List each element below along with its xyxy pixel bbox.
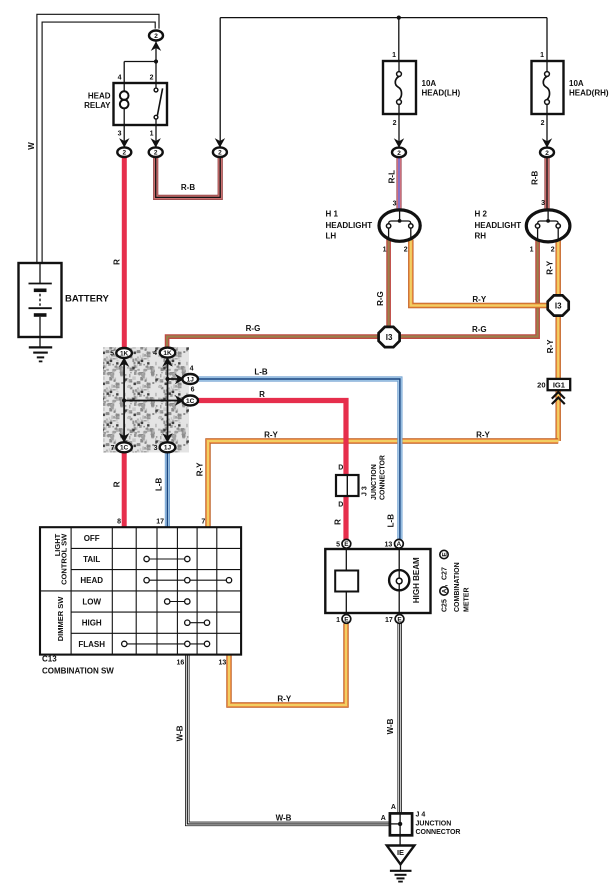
svg-text:2: 2 bbox=[397, 150, 401, 157]
arrow into relay pin3 connector (down) bbox=[119, 138, 129, 147]
junction connector J4 bbox=[390, 813, 412, 835]
svg-text:5: 5 bbox=[336, 542, 340, 549]
chevrons under IG1 bbox=[552, 392, 565, 399]
junction block internal wires bbox=[123, 356, 125, 444]
meter pin circles bbox=[342, 539, 351, 548]
svg-text:E: E bbox=[344, 541, 349, 548]
battery box bbox=[19, 263, 62, 337]
svg-text:R-Y: R-Y bbox=[546, 339, 555, 353]
svg-text:IE: IE bbox=[397, 848, 404, 857]
meter high-beam lamp bbox=[389, 570, 409, 590]
svg-text:A: A bbox=[397, 541, 402, 548]
svg-text:5: 5 bbox=[110, 351, 114, 358]
fuse 10A HEAD(RH) bbox=[532, 61, 564, 114]
svg-text:H 1: H 1 bbox=[326, 210, 339, 219]
arrow into 1K pin4 (up) bbox=[162, 357, 172, 367]
switch contacts LOW bbox=[167, 601, 187, 603]
svg-text:I3: I3 bbox=[555, 302, 562, 311]
ground battery bbox=[29, 346, 52, 348]
svg-text:CONNECTOR: CONNECTOR bbox=[380, 455, 387, 500]
svg-text:1C: 1C bbox=[186, 398, 195, 405]
svg-text:1: 1 bbox=[540, 52, 544, 59]
splice octagon I3 left bbox=[379, 327, 400, 347]
connector oval 1J pin4 bbox=[182, 374, 198, 384]
svg-text:W: W bbox=[27, 142, 36, 150]
wire R: relay pin3 to junction block 1K pin5 bbox=[122, 157, 127, 350]
svg-text:R-G: R-G bbox=[376, 291, 385, 306]
svg-text:HEAD(RH): HEAD(RH) bbox=[569, 89, 609, 98]
wire W-B: comb sw pin16 to J4 bbox=[187, 655, 390, 824]
svg-text:OFF: OFF bbox=[84, 534, 100, 543]
svg-text:LH: LH bbox=[326, 232, 337, 241]
svg-text:C13: C13 bbox=[42, 655, 57, 664]
svg-text:3: 3 bbox=[541, 200, 545, 207]
wire R-B: fuse HEAD(RH) to H2 pin3 bbox=[544, 157, 549, 212]
splice octagon I3 right bbox=[548, 295, 569, 315]
wire R-Y: comb sw pin13 to combination meter pin1 bbox=[229, 624, 346, 706]
svg-text:R-Y: R-Y bbox=[476, 431, 490, 440]
wire R-B: relay pin1 connector to fuse feed connector bbox=[156, 157, 221, 197]
svg-text:L-B: L-B bbox=[254, 368, 268, 377]
wire black: relay output feed to fuses bbox=[220, 17, 547, 19]
svg-text:7: 7 bbox=[201, 519, 205, 526]
svg-text:R-Y: R-Y bbox=[545, 260, 554, 274]
svg-text:HIGH BEAM: HIGH BEAM bbox=[412, 557, 421, 603]
svg-text:3: 3 bbox=[393, 201, 397, 208]
connector oval 2 relay pin3 bbox=[117, 147, 131, 157]
svg-text:HIGH: HIGH bbox=[82, 619, 102, 628]
svg-text:DIMMER SW: DIMMER SW bbox=[56, 596, 65, 642]
svg-text:D: D bbox=[338, 501, 343, 508]
svg-text:1: 1 bbox=[383, 247, 387, 254]
headlight H1 bbox=[379, 210, 420, 241]
svg-text:2: 2 bbox=[541, 120, 545, 127]
svg-text:6: 6 bbox=[191, 387, 195, 394]
svg-text:8: 8 bbox=[117, 519, 121, 526]
svg-text:E: E bbox=[344, 616, 349, 623]
wire L-B: junction block 1J pin3 to comb sw pin17 bbox=[165, 452, 170, 528]
svg-text:E: E bbox=[441, 552, 448, 557]
arrow into 1C pin6 (right) bbox=[175, 395, 185, 405]
svg-text:CONNECTOR: CONNECTOR bbox=[416, 829, 461, 836]
svg-text:A: A bbox=[381, 815, 386, 822]
svg-text:R-Y: R-Y bbox=[277, 695, 291, 704]
arrow into feed connector (down) bbox=[215, 138, 225, 147]
svg-text:4: 4 bbox=[190, 366, 194, 373]
relay switch bbox=[155, 83, 157, 88]
arrow into top connector 2 (up) bbox=[151, 42, 161, 51]
wire R-L: fuse HEAD(LH) to H1 pin3 bbox=[396, 157, 401, 212]
svg-text:1J: 1J bbox=[187, 376, 195, 383]
connector IG1 box bbox=[548, 379, 571, 390]
svg-text:R-B: R-B bbox=[181, 183, 195, 192]
connector oval 1K pin4 bbox=[160, 348, 176, 358]
svg-text:A: A bbox=[441, 588, 448, 593]
switch contacts HIGH bbox=[187, 622, 207, 624]
svg-text:1K: 1K bbox=[163, 350, 172, 357]
wire R-Y: H1 pin2 to splice I3 right bbox=[411, 240, 548, 306]
svg-text:W-B: W-B bbox=[386, 718, 395, 734]
svg-text:R-L: R-L bbox=[388, 170, 397, 183]
svg-text:C27: C27 bbox=[442, 567, 449, 580]
svg-text:2: 2 bbox=[551, 247, 555, 254]
svg-text:L-B: L-B bbox=[387, 514, 396, 528]
svg-text:RELAY: RELAY bbox=[84, 101, 111, 110]
svg-text:16: 16 bbox=[177, 660, 185, 667]
svg-text:D: D bbox=[338, 465, 343, 472]
switch contacts HEAD bbox=[147, 579, 229, 581]
svg-text:3: 3 bbox=[154, 445, 158, 452]
svg-text:3: 3 bbox=[118, 131, 122, 138]
svg-text:1: 1 bbox=[336, 617, 340, 624]
wire W battery to connector 2 (double line) bbox=[37, 14, 159, 263]
connector oval 1K pin5 bbox=[116, 348, 132, 358]
svg-text:4: 4 bbox=[153, 350, 157, 357]
svg-text:JUNCTION: JUNCTION bbox=[416, 820, 452, 827]
junction connector J3 bbox=[336, 475, 359, 496]
arrow into fuse RH connector (down) bbox=[542, 138, 552, 147]
arrow into 1J pin4 (right) bbox=[175, 374, 185, 384]
node: relay pin2/4 branch bbox=[154, 59, 158, 63]
svg-text:C25: C25 bbox=[442, 599, 449, 612]
wire black: fuse bottoms to connectors bbox=[398, 114, 400, 147]
arrow into fuse LH connector (down) bbox=[394, 138, 404, 147]
wire R-Y: H2 pin2 through splice I3 and IG1 down, across to comb sw pin7 bbox=[208, 241, 558, 529]
svg-text:R-B: R-B bbox=[531, 170, 540, 184]
svg-text:2: 2 bbox=[154, 33, 158, 40]
arrow into 1C pin7 (down) bbox=[119, 433, 129, 443]
fuse 10A HEAD(LH) bbox=[383, 61, 416, 114]
svg-text:2: 2 bbox=[545, 150, 549, 157]
svg-text:COMBINATION: COMBINATION bbox=[454, 562, 461, 612]
arrow into relay pin1 connector (down) bbox=[151, 138, 161, 147]
headlight H2 bbox=[526, 210, 570, 242]
connector oval 1C pin7 bbox=[116, 442, 132, 452]
svg-text:10A: 10A bbox=[569, 79, 584, 88]
svg-text:1: 1 bbox=[530, 247, 534, 254]
svg-text:13: 13 bbox=[385, 542, 393, 549]
svg-text:R-Y: R-Y bbox=[264, 431, 278, 440]
svg-text:W-B: W-B bbox=[276, 814, 292, 823]
svg-text:R: R bbox=[334, 519, 343, 525]
relay coil bbox=[123, 83, 125, 91]
wire W-B: meter pin17 to J4 bbox=[397, 624, 402, 825]
svg-text:HEAD(LH): HEAD(LH) bbox=[422, 89, 461, 98]
svg-text:TAIL: TAIL bbox=[83, 555, 100, 564]
svg-text:1C: 1C bbox=[120, 445, 129, 452]
svg-text:20: 20 bbox=[537, 380, 545, 389]
svg-text:H 2: H 2 bbox=[475, 210, 488, 219]
ground symbol bbox=[390, 870, 412, 872]
connector oval 1C pin6 bbox=[182, 396, 198, 406]
svg-text:2: 2 bbox=[218, 150, 222, 157]
svg-text:R-G: R-G bbox=[472, 325, 487, 334]
svg-text:R-Y: R-Y bbox=[472, 295, 486, 304]
svg-text:2: 2 bbox=[150, 75, 154, 82]
connector oval 2 relay pin1 bbox=[149, 147, 163, 157]
svg-text:HEADLIGHT: HEADLIGHT bbox=[326, 221, 373, 230]
arrow into 1K pin5 (up) bbox=[119, 357, 129, 367]
svg-text:7: 7 bbox=[111, 445, 115, 452]
wire L-B: junction block 1J pin4 to meter pin13 bbox=[196, 379, 400, 540]
connector oval 2 fuse LH bbox=[392, 148, 406, 158]
svg-text:17: 17 bbox=[385, 617, 393, 624]
switch contacts TAIL bbox=[147, 558, 188, 560]
svg-text:2: 2 bbox=[393, 120, 397, 127]
svg-text:10A: 10A bbox=[422, 79, 437, 88]
svg-text:J 3: J 3 bbox=[361, 486, 368, 496]
relay HEAD RELAY box bbox=[114, 83, 168, 125]
svg-text:E: E bbox=[397, 616, 402, 623]
ground triangle IE bbox=[387, 846, 415, 865]
svg-text:17: 17 bbox=[156, 519, 164, 526]
node: feed junction bbox=[397, 16, 401, 20]
svg-text:FLASH: FLASH bbox=[78, 640, 105, 649]
wire R: junction block 1C pin7 to comb sw pin8 bbox=[122, 452, 127, 528]
wire R-G: junction block 1K pin4 to splice I3 to H2 pin1, and H1 pin1 drop bbox=[167, 240, 537, 349]
svg-text:A: A bbox=[391, 804, 396, 811]
svg-text:R-G: R-G bbox=[246, 324, 261, 333]
svg-text:METER: METER bbox=[464, 588, 471, 613]
svg-text:HEAD: HEAD bbox=[80, 576, 103, 585]
rotated wire labels bbox=[27, 142, 555, 742]
switch contacts FLASH bbox=[124, 643, 207, 645]
connector oval 2 fuse RH bbox=[540, 148, 554, 158]
C25/C27 annotation circles bbox=[440, 587, 448, 595]
battery cells bbox=[39, 263, 41, 284]
svg-text:COMBINATION SW: COMBINATION SW bbox=[42, 666, 114, 675]
svg-text:4: 4 bbox=[118, 75, 122, 82]
svg-text:1: 1 bbox=[150, 131, 154, 138]
junction block (hatched) bbox=[103, 347, 189, 453]
wire black: relay pin3 and pin1 to connectors bbox=[123, 125, 125, 147]
svg-text:1: 1 bbox=[392, 52, 396, 59]
svg-text:1J: 1J bbox=[164, 445, 172, 452]
meter resistor square bbox=[335, 571, 358, 592]
arrow into 1J pin3 (down) bbox=[162, 433, 172, 443]
svg-text:RH: RH bbox=[475, 232, 487, 241]
svg-text:IG1: IG1 bbox=[553, 380, 565, 389]
svg-text:R-Y: R-Y bbox=[196, 462, 205, 476]
svg-text:LOW: LOW bbox=[82, 598, 101, 607]
svg-text:R: R bbox=[113, 481, 122, 487]
combination switch C13 table bbox=[40, 527, 241, 654]
svg-text:2: 2 bbox=[404, 247, 408, 254]
connector oval 2 top bbox=[149, 31, 163, 41]
svg-text:J 4: J 4 bbox=[416, 811, 426, 818]
svg-text:W-B: W-B bbox=[175, 725, 184, 741]
svg-text:L-B: L-B bbox=[154, 478, 163, 492]
svg-text:HEAD: HEAD bbox=[88, 92, 111, 101]
connector oval 2 feed bbox=[213, 147, 227, 157]
svg-text:13: 13 bbox=[219, 660, 227, 667]
svg-text:2: 2 bbox=[154, 150, 158, 157]
svg-text:2: 2 bbox=[122, 150, 126, 157]
svg-text:HEADLIGHT: HEADLIGHT bbox=[475, 221, 522, 230]
svg-text:,: , bbox=[442, 585, 449, 587]
combination meter box bbox=[325, 549, 430, 613]
svg-text:R: R bbox=[113, 259, 122, 265]
svg-text:CONTROL SW: CONTROL SW bbox=[60, 533, 69, 585]
wire black: top connector to relay pins 2 and 4 bbox=[155, 41, 157, 83]
svg-text:1K: 1K bbox=[120, 350, 129, 357]
connector oval 1J pin3 bbox=[160, 442, 176, 452]
svg-text:R: R bbox=[259, 390, 265, 399]
svg-text:JUNCTION: JUNCTION bbox=[371, 464, 378, 500]
svg-text:BATTERY: BATTERY bbox=[65, 294, 109, 305]
svg-text:I3: I3 bbox=[386, 333, 393, 342]
wire R: junction block 1C pin6 through J3 to meter pin5 bbox=[196, 401, 346, 540]
